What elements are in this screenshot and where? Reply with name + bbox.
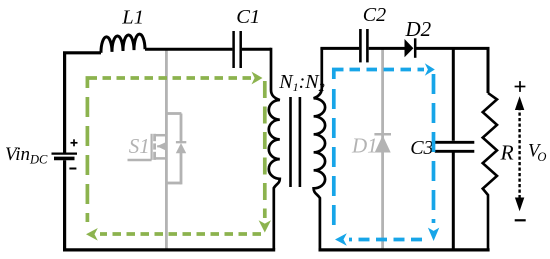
transformer primary winding: [269, 48, 280, 250]
svg-text:D1: D1: [351, 134, 378, 158]
svg-text:C3: C3: [410, 137, 433, 159]
svg-text:L1: L1: [121, 7, 144, 29]
wire C1 to transformer primary: [242, 48, 271, 51]
svg-text:C2: C2: [363, 4, 386, 26]
svg-text:S1: S1: [129, 134, 150, 158]
svg-text:N1:N2: N1:N2: [278, 71, 324, 94]
Vo dashed measurement arrow: [518, 107, 520, 200]
blue arrow left (bottom): [335, 233, 347, 245]
transformer secondary winding: [314, 48, 326, 250]
battery minus: [69, 168, 76, 170]
blue dashed loop (output current path): [334, 70, 434, 240]
green dashed loop (input current path): [87, 78, 264, 234]
capacitor C3 branch: [452, 48, 455, 140]
wire C2 to D2: [369, 47, 405, 50]
bottom wire right section: [319, 248, 490, 251]
svg-text:R: R: [500, 141, 514, 165]
green arrow right (top): [252, 72, 263, 85]
wire L1 to C1: [145, 48, 232, 51]
diode D2: [405, 39, 414, 57]
inductor L1: [101, 34, 145, 53]
S1 body-diode triangle: [176, 143, 186, 153]
svg-text:D2: D2: [405, 17, 432, 41]
wire secondary top to C2: [320, 47, 359, 50]
blue arrow down (right side): [428, 228, 439, 241]
wire left vertical + top-left lead: [65, 53, 101, 153]
battery plus: [71, 139, 78, 146]
blue arrow right (top): [425, 63, 435, 76]
wire D2 to top-right corner and down to R: [415, 48, 488, 93]
S1 arrow: [157, 142, 167, 151]
svg-text:C1: C1: [236, 6, 260, 28]
capacitor C1: [234, 31, 241, 68]
green arrow down (right side): [259, 220, 271, 232]
bottom wire left section: [63, 248, 275, 251]
transistor S1 (gray MOSFET with body diode): [128, 50, 187, 249]
diode D1 (gray): [374, 48, 391, 250]
green arrow left (bottom): [86, 228, 98, 241]
transformer core: [289, 97, 292, 187]
Vo plus: [515, 81, 526, 92]
source Vin battery: [63, 160, 66, 250]
resistor R: [483, 93, 497, 250]
capacitor C2: [360, 29, 367, 62]
Vo minus: [515, 219, 526, 221]
